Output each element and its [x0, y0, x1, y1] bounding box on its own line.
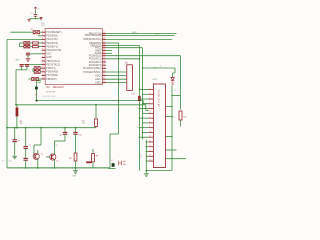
pin left 3	[42, 38, 46, 40]
pin right 26	[102, 64, 106, 66]
component Q2	[92, 149, 94, 153]
wire join	[32, 68, 34, 72]
svg-text:TUXGR_16X2_R2: TUXGR_16X2_R2	[157, 90, 159, 107]
pin right 17	[102, 38, 106, 40]
pin LCD 7	[149, 117, 154, 119]
capacitor C10	[75, 128, 77, 132]
svg-text:PB7(XTAL2): PB7(XTAL2)	[46, 63, 60, 66]
svg-text:12: 12	[103, 81, 105, 83]
svg-text:13: 13	[149, 145, 151, 147]
svg-text:27: 27	[103, 34, 105, 36]
pin LCD 14	[149, 151, 154, 153]
pin right 24	[102, 58, 106, 60]
svg-text:PD7(AIN1): PD7(AIN1)	[46, 74, 58, 77]
pin LCD 3	[149, 98, 154, 100]
jumper JP1 pad	[112, 163, 115, 167]
pin left 8	[42, 56, 46, 58]
svg-text:+5: +5	[173, 117, 175, 119]
wire lcd stub	[143, 131, 149, 133]
capacitor C8	[24, 158, 28, 160]
ground C6	[12, 156, 17, 159]
svg-text:21: 21	[103, 52, 105, 54]
wire net8	[106, 52, 112, 54]
svg-text:MEGA8-P: MEGA8-P	[53, 86, 65, 89]
pin right 28	[102, 71, 106, 73]
wire T2 emitter	[53, 159, 55, 168]
svg-text:R11: R11	[183, 117, 186, 119]
pin right 25	[102, 61, 106, 63]
wire lcd stub	[143, 122, 149, 124]
wire row7	[31, 53, 42, 55]
pin LCD 8	[149, 122, 154, 124]
pin LCD 15	[149, 155, 154, 157]
svg-text:C2: C2	[31, 13, 33, 15]
svg-text:14: 14	[103, 74, 105, 76]
svg-text:15: 15	[149, 155, 151, 157]
wire stub row2	[38, 35, 42, 37]
svg-text:24: 24	[103, 44, 105, 46]
transistor T2	[50, 154, 56, 160]
svg-text:ATMEGA8: ATMEGA8	[46, 91, 56, 94]
pin right 21	[102, 50, 106, 52]
pin LCD 2	[149, 93, 154, 95]
wire	[27, 55, 29, 58]
wire	[33, 67, 34, 69]
junction	[36, 100, 38, 102]
junction pad	[35, 87, 38, 90]
wire header3	[106, 78, 127, 80]
wire rail low	[7, 127, 96, 129]
pin right 30	[102, 78, 106, 80]
wire lcd stub	[139, 117, 148, 119]
svg-text:13: 13	[42, 74, 44, 76]
svg-text:PD2(INT0): PD2(INT0)	[46, 42, 58, 45]
resistor R10 vertical	[138, 96, 141, 101]
wire lcd stub	[143, 93, 149, 95]
svg-text:X1-: X1-	[2, 160, 5, 162]
wire lcd stub	[139, 89, 148, 91]
junction	[35, 18, 36, 19]
wire	[40, 31, 42, 33]
svg-text:1: 1	[42, 31, 43, 33]
wire	[35, 10, 37, 14]
svg-text:PD6(AIN0): PD6(AIN0)	[46, 71, 58, 74]
svg-text:19: 19	[103, 57, 105, 59]
left rail	[6, 39, 8, 168]
diode D5 series	[171, 77, 174, 84]
svg-text:VCC: VCC	[46, 53, 51, 56]
svg-text:26: 26	[103, 38, 105, 40]
svg-text:LCD_RS LCD_E: LCD_RS LCD_E	[42, 96, 56, 98]
bus drop x142	[142, 48, 144, 140]
op IC1 ATMEGA8 box	[45, 29, 102, 85]
pin left 6	[42, 49, 46, 51]
junction	[37, 167, 39, 169]
pin right 27	[102, 67, 106, 69]
wire row10	[20, 64, 42, 66]
svg-text:LCD1: LCD1	[152, 79, 158, 81]
capacitor C3	[26, 53, 30, 55]
wire row1	[10, 31, 33, 33]
svg-text:PC4(ADC4/SDA): PC4(ADC4/SDA)	[83, 67, 102, 70]
svg-text:7: 7	[42, 52, 43, 54]
pin LCD 1	[149, 89, 154, 91]
pin LCD 4	[149, 103, 154, 105]
svg-text:4k7: 4k7	[20, 123, 23, 125]
pin LCD 6	[149, 112, 154, 114]
wire net4	[106, 42, 119, 44]
pin left 1	[42, 31, 46, 33]
svg-text:17: 17	[103, 64, 105, 66]
junction	[16, 127, 18, 129]
ground lcd	[145, 171, 147, 174]
svg-text:C6: C6	[17, 141, 19, 143]
svg-text:PC6(/RESET): PC6(/RESET)	[46, 31, 61, 34]
crystal Q1	[38, 81, 41, 83]
svg-text:R10: R10	[132, 94, 135, 96]
svg-text:6: 6	[42, 49, 43, 51]
wire net6	[106, 47, 143, 49]
svg-text:+5: +5	[174, 90, 176, 92]
pin right 15	[102, 33, 106, 35]
svg-text:14: 14	[42, 77, 44, 79]
wire header4	[106, 82, 127, 84]
svg-text:11: 11	[42, 67, 44, 69]
capacitor C6	[14, 128, 16, 140]
junction	[6, 127, 8, 129]
wire lcd right stub5	[165, 158, 186, 160]
wire	[35, 16, 37, 19]
svg-text:25: 25	[103, 41, 105, 43]
diode D1 small	[40, 18, 42, 20]
ground C3	[26, 59, 31, 62]
svg-text:14: 14	[149, 150, 151, 152]
bus drop x139	[138, 46, 140, 96]
svg-text:IC1: IC1	[46, 86, 51, 89]
capacitor C5	[25, 65, 29, 67]
svg-text:12: 12	[149, 140, 151, 142]
wire rail mid1	[37, 100, 144, 102]
wire	[30, 46, 33, 48]
wire net7	[106, 50, 112, 52]
svg-text:PD4(XCK/T0): PD4(XCK/T0)	[46, 49, 61, 52]
svg-text:8: 8	[42, 56, 43, 58]
svg-text:10: 10	[42, 63, 44, 65]
svg-text:?: ?	[160, 66, 161, 68]
wire lcd stub	[146, 146, 148, 148]
svg-text:28: 28	[103, 32, 105, 34]
op LCD1 connector box	[153, 84, 165, 168]
svg-text:16: 16	[149, 160, 151, 162]
resistor R5	[34, 70, 40, 73]
svg-text:20: 20	[103, 54, 105, 56]
svg-text:12: 12	[42, 70, 44, 72]
junction	[15, 104, 17, 106]
svg-text:4: 4	[42, 41, 43, 43]
resistor R7 vertical	[95, 127, 97, 128]
svg-text:PD3(INT1): PD3(INT1)	[46, 45, 58, 48]
svg-text:11: 11	[149, 136, 151, 138]
wire rail mid2 drop	[145, 105, 147, 111]
pin LCD 5	[149, 108, 154, 110]
wire up right end	[109, 134, 111, 168]
svg-text:PB0(ICP): PB0(ICP)	[46, 78, 56, 81]
svg-text:18: 18	[103, 60, 105, 62]
svg-text:2: 2	[42, 34, 43, 36]
pin LCD 9	[149, 127, 154, 129]
pin left 12	[42, 71, 46, 73]
svg-text:23: 23	[103, 46, 105, 48]
pin right 31	[102, 82, 106, 84]
svg-text:GND2: GND2	[95, 81, 102, 84]
wire down	[36, 79, 38, 87]
pin left 14	[42, 78, 46, 80]
wire	[38, 42, 41, 44]
svg-text:MISO: MISO	[155, 34, 160, 36]
pin left 13	[42, 74, 46, 76]
wire lcd stub	[146, 151, 148, 153]
svg-text:16: 16	[103, 67, 105, 69]
wire	[180, 120, 182, 127]
wire	[30, 42, 33, 44]
pin LCD 11	[149, 136, 154, 138]
svg-text:PB2(SS/OC1B): PB2(SS/OC1B)	[85, 34, 102, 37]
wire	[36, 89, 38, 100]
wire	[138, 101, 140, 171]
pin right 16	[102, 34, 106, 36]
svg-text:13: 13	[103, 78, 105, 80]
wire	[16, 116, 18, 127]
svg-text:ISP-6: ISP-6	[130, 67, 132, 72]
wire row4	[20, 42, 24, 44]
wire horizontal	[29, 18, 40, 20]
svg-text:A4: A4	[35, 93, 37, 96]
transistor T1	[40, 128, 42, 145]
resistor R2	[33, 42, 39, 44]
wire rail mid1 drop	[142, 101, 144, 104]
wire lcd stub	[146, 160, 148, 162]
wire	[38, 46, 41, 48]
wire lcd stub	[139, 136, 148, 138]
svg-text:5: 5	[42, 45, 43, 47]
svg-text:PD0(RXD): PD0(RXD)	[46, 35, 58, 38]
svg-text:PB6(XTAL1): PB6(XTAL1)	[46, 60, 60, 63]
wire lcd right stub3	[165, 136, 172, 138]
wire net9	[106, 55, 181, 57]
wire tee y68	[143, 67, 175, 69]
wire caps bottom	[21, 66, 23, 70]
ground bottom rail	[75, 168, 77, 171]
svg-text:GND: GND	[46, 56, 52, 59]
wire	[33, 71, 34, 73]
pin left 11	[42, 67, 46, 69]
wire rail mid2	[16, 104, 146, 106]
wire row5	[20, 46, 24, 48]
pin left 10	[42, 64, 46, 66]
ground left	[27, 19, 31, 21]
wire down to rail1	[15, 70, 17, 105]
resistor R4	[34, 67, 40, 70]
wire net4 drop	[118, 43, 120, 134]
wire net9 drop	[180, 56, 182, 110]
svg-text:10k: 10k	[82, 123, 85, 125]
pin right 29	[102, 75, 106, 77]
svg-text:R1: R1	[31, 29, 33, 31]
resistor R6 vertical	[16, 105, 18, 108]
wire T1 collector	[37, 150, 39, 154]
diode D4	[119, 161, 126, 166]
svg-text:PC5(ADC5/SCL): PC5(ADC5/SCL)	[83, 71, 101, 74]
pin right 19	[102, 45, 106, 47]
svg-text:GND: GND	[15, 60, 20, 62]
svg-text:3: 3	[42, 38, 43, 40]
svg-text:C10: C10	[78, 134, 81, 136]
wire top right	[172, 94, 181, 96]
wire net5	[106, 45, 139, 47]
svg-text:SV1: SV1	[125, 63, 129, 65]
pin LCD 12	[149, 141, 154, 143]
pin left 4	[42, 42, 46, 44]
pin left 7	[42, 53, 46, 55]
svg-text:9: 9	[42, 59, 43, 61]
resistor R1	[33, 31, 40, 34]
wire T2 collector	[53, 141, 55, 155]
wire row3 reset	[7, 38, 42, 40]
pin right 22	[102, 52, 106, 54]
wire bottom rail	[7, 167, 110, 169]
pin right 20	[102, 47, 106, 49]
wire net3	[106, 38, 172, 40]
wire net2	[106, 34, 175, 36]
wire	[25, 160, 27, 168]
switch S2	[24, 45, 30, 48]
wire lcd stub	[146, 155, 148, 157]
wire join rows	[19, 43, 21, 47]
wire lcd right stub1	[165, 106, 172, 108]
wire header1	[106, 71, 127, 73]
capacitor C9	[64, 128, 66, 132]
diode D2	[32, 77, 39, 80]
wire down	[174, 68, 176, 73]
bus x146 vertical	[145, 140, 147, 171]
junction	[145, 170, 147, 172]
pin right 18	[102, 42, 106, 44]
svg-text:C7: C7	[28, 145, 30, 147]
pin right 23	[102, 55, 106, 57]
diode D3	[86, 161, 92, 163]
wire lcd stub	[146, 141, 148, 143]
svg-text:PD5(T1): PD5(T1)	[46, 67, 55, 70]
svg-text:15: 15	[103, 70, 105, 72]
wire nub	[110, 133, 119, 135]
resistor R3	[33, 46, 39, 48]
wire lcd stub	[139, 108, 148, 110]
pin LCD 16	[149, 160, 154, 162]
wire	[25, 148, 27, 158]
junction	[95, 104, 97, 106]
capacitor C4	[20, 65, 24, 67]
svg-text:10: 10	[149, 131, 151, 133]
power VCC symbol	[34, 7, 37, 10]
pin LCD 13	[149, 146, 154, 148]
resistor R8 vertical	[75, 134, 77, 152]
wire T2 base	[46, 156, 50, 158]
wire right bus	[171, 85, 173, 170]
svg-text:C9: C9	[59, 135, 61, 137]
wire net1	[106, 33, 177, 35]
wire lcd stub	[143, 103, 149, 105]
connector SV1 box	[127, 65, 133, 91]
wire lcd right stub4	[165, 149, 176, 151]
wire lcd stub	[139, 98, 148, 100]
svg-text:PD1(TXD): PD1(TXD)	[46, 38, 57, 41]
wire stub	[108, 167, 116, 169]
pin left 2	[42, 35, 46, 37]
wire lcd bottom	[146, 170, 172, 172]
wire header2	[106, 75, 127, 77]
svg-text:PB3(MOSI/OC2): PB3(MOSI/OC2)	[83, 38, 101, 41]
wire	[28, 78, 31, 80]
svg-text:JP1: JP1	[111, 160, 114, 162]
pin left 5	[42, 46, 46, 48]
wire net10	[106, 58, 139, 60]
resistor R11 vertical	[179, 111, 182, 120]
wire lcd stub	[143, 112, 149, 114]
switch S1	[24, 42, 30, 45]
capacitor C7	[25, 128, 27, 147]
svg-text:MOSI: MOSI	[132, 32, 137, 34]
wire lcd right stub2	[165, 115, 172, 117]
junction	[14, 127, 16, 129]
svg-text:ADC6: ADC6	[95, 74, 102, 77]
pin LCD 10	[149, 131, 154, 133]
wire lcd stub	[139, 127, 148, 129]
wire T1 emitter	[37, 159, 39, 168]
pin left 9	[42, 60, 46, 62]
svg-text:22: 22	[103, 49, 105, 51]
capacitor C2 top-left	[34, 15, 38, 17]
